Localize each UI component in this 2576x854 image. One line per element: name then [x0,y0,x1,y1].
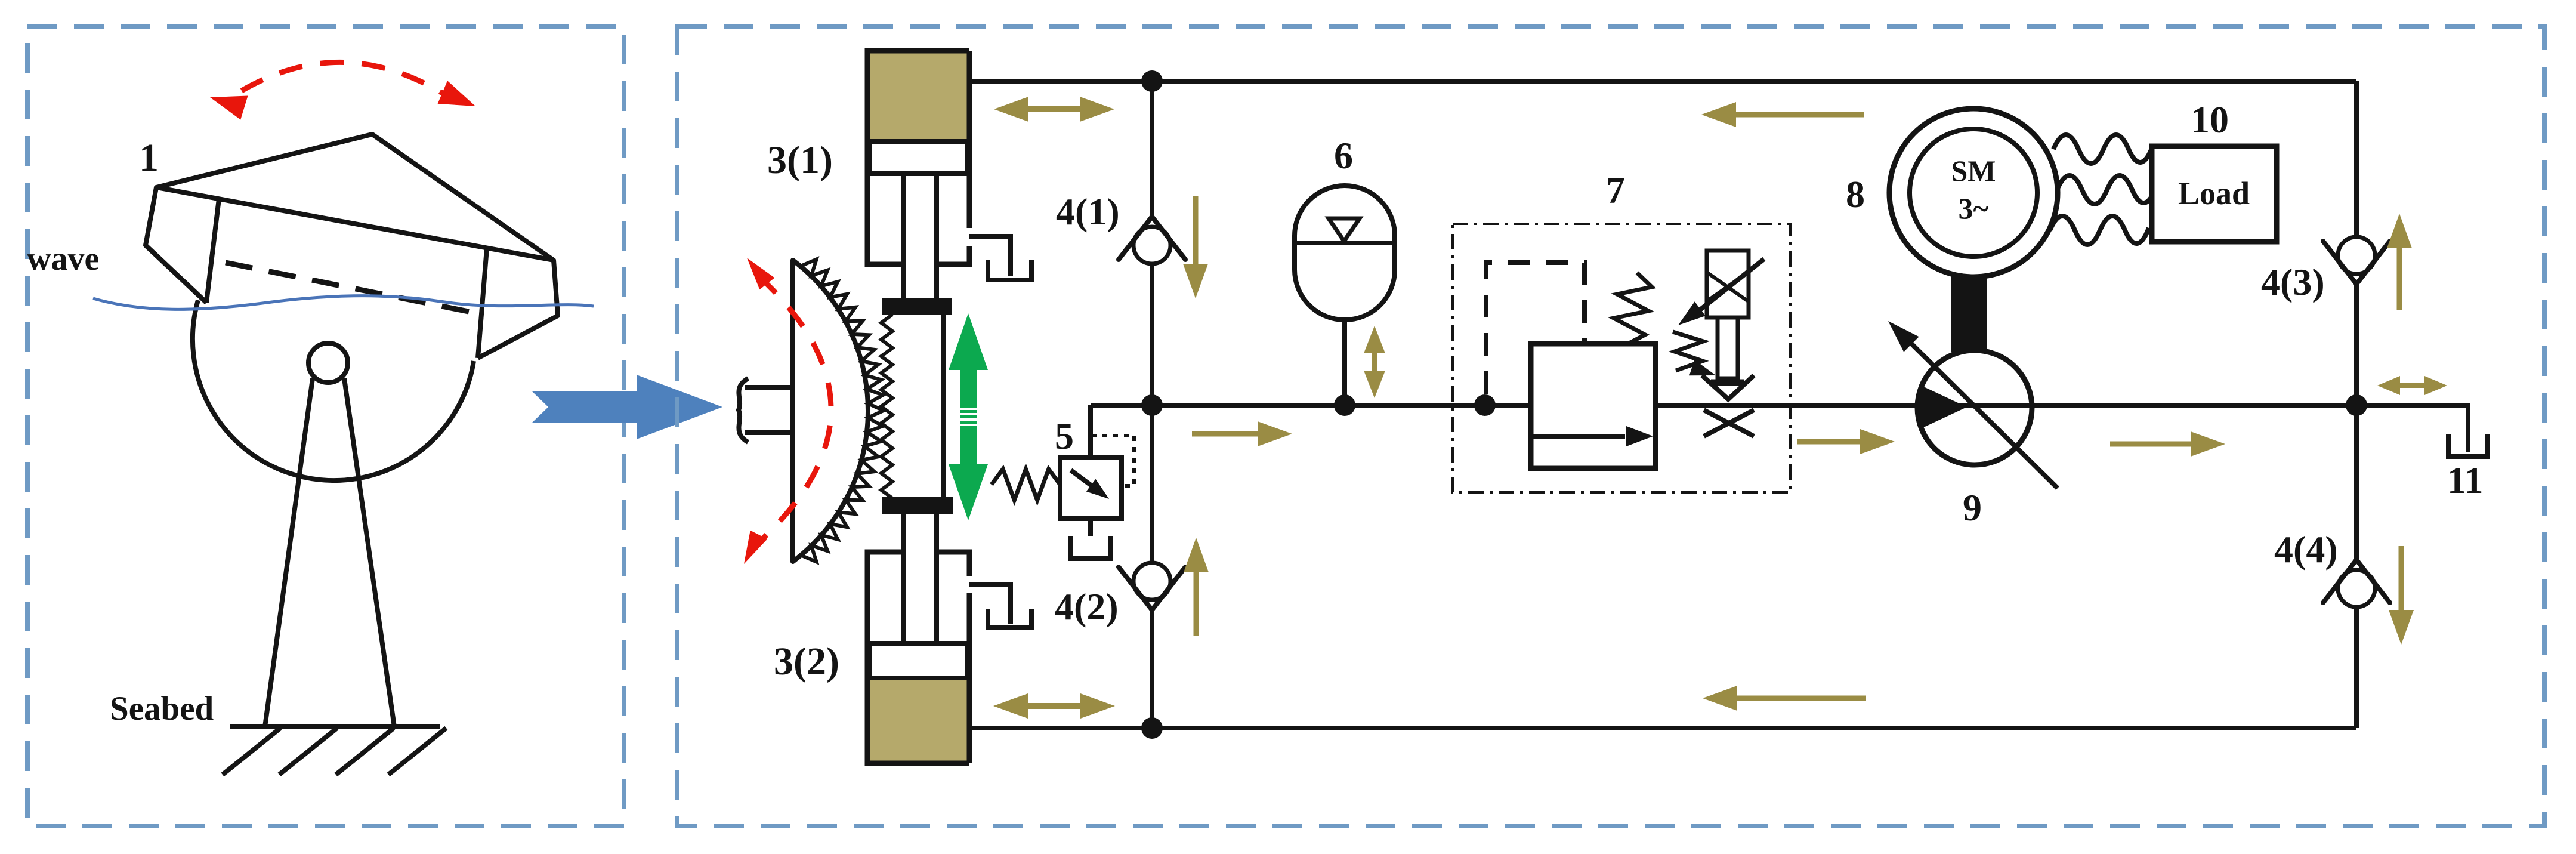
tank 11 [2448,434,2488,457]
svg-text:SM: SM [1951,154,1996,187]
svg-text:10: 10 [2191,98,2229,141]
buoy hull circle arc [193,300,474,480]
flow control valve body (box 7) [1531,273,1655,468]
pilot dashed line (box 7) [1486,263,1584,394]
svg-text:3(1): 3(1) [767,138,833,182]
flow arrow left (top line) [1701,102,1864,127]
svg-text:4(2): 4(2) [1055,585,1119,628]
floater buoy 1 (outline) [146,134,558,358]
green rack-motion double arrow [949,313,988,520]
node junction (1931,679) [1141,394,1163,416]
wire: top line from cylinder 3(1) to right corner [969,79,2356,84]
flow arrow right (after valve block) [1797,429,1895,454]
label 7 [1606,169,1625,211]
label wave [27,241,99,278]
svg-text:5: 5 [1055,415,1074,457]
dash-dot enclosure of valve block 7 [1453,224,1790,492]
seabed ground with hatching [223,727,446,775]
proportional throttle (box 7) [1673,251,1764,436]
svg-text:11: 11 [2447,459,2483,501]
input shaft fork [739,378,793,442]
svg-text:3~: 3~ [1958,192,1988,225]
wave water line [93,296,594,310]
cylinder 3(1) drain port with tank [969,236,1031,280]
node junction (3950,679) [2346,394,2367,416]
flow arrow right (after motor) [2110,431,2225,457]
svg-text:9: 9 [1963,486,1982,529]
flow arrow up (at 4(2)) [1184,538,1209,636]
label 6 [1334,134,1353,177]
svg-text:6: 6 [1334,134,1353,177]
node junction (1931,136) [1141,70,1163,92]
cylinder 3(1) [867,51,969,300]
label 3(1) [767,138,833,182]
flow arrow (cyl 3(2) port, double) [993,693,1115,719]
svg-text:4(4): 4(4) [2274,528,2338,571]
flow arrow down (at 4(4)) [2389,546,2414,645]
wire: middle main line [1091,403,2356,408]
red oscillation arc (sector) [744,258,831,564]
svg-text:Seabed: Seabed [110,690,214,727]
relief valve 5 [992,405,1134,559]
right dashed panel border [677,26,2544,826]
label 5 [1055,415,1074,457]
label 4(1) [1056,190,1120,233]
floater hidden waterline edge (dashed) [226,263,483,315]
check valve 4(3) [2323,237,2390,284]
sector gear (pinion segment) [793,260,884,562]
svg-text:1: 1 [139,136,159,180]
label 3(2) [774,640,839,683]
flow arrow up (at 4(3)) [2387,214,2412,310]
three-phase squiggle wires [2050,135,2156,245]
load box 10 [2152,146,2277,242]
flow arrow down (at 4(1)) [1183,196,1208,298]
blue transfer arrow [532,375,722,439]
label 4(2) [1055,585,1119,628]
flow arrow (cyl 3(1) port, double) [994,97,1114,122]
cylinder 3(2) [867,513,969,763]
check valve 4(2) [1119,563,1185,610]
label Seabed [110,690,214,727]
svg-text:8: 8 [1846,173,1865,215]
svg-text:7: 7 [1606,169,1625,211]
label 4(4) [2274,528,2338,571]
pivot circle [308,343,348,383]
rack with crossheads [879,298,953,514]
motor-generator shaft [1951,275,1987,352]
label 8 [1846,173,1865,215]
svg-text:Load: Load [2178,175,2250,211]
wire: right vertical line through 4(3) and 4(4) [2354,81,2359,728]
wire: branch to tank 11 [2356,405,2468,452]
node junction (2489,679) [1474,394,1496,416]
svg-text:wave: wave [27,241,99,278]
label 4(3) [2261,261,2325,303]
node junction (1931,1220) [1141,717,1163,739]
check valve 4(1) [1119,217,1185,264]
synchronous generator 8 [1889,109,2058,277]
flow arrow (tank branch, double) [2377,376,2447,395]
variable hydraulic motor 9 [1888,321,2058,488]
flow arrow left (bottom line) [1703,686,1866,711]
wire: bottom line from cylinder 3(2) to right [971,726,2356,730]
left dashed panel border [27,26,624,826]
flow arrow right (middle line) [1192,421,1292,446]
svg-text:3(2): 3(2) [774,640,839,683]
red oscillation arc (left panel) [210,62,475,119]
support A-frame legs [265,378,394,727]
label 11 [2447,459,2483,501]
flow arrow (accumulator, double) [1364,326,1385,398]
wire: left vertical line through 4(1) and 4(2) [1150,81,1154,728]
label 1 [139,136,159,180]
cylinder 3(2) drain port with tank [969,585,1031,628]
label 9 [1963,486,1982,529]
accumulator 6 [1295,186,1395,405]
label 10 [2191,98,2229,141]
svg-text:4(3): 4(3) [2261,261,2325,303]
check valve 4(4) [2323,560,2390,607]
node junction (2254,679) [1334,394,1355,416]
svg-text:4(1): 4(1) [1056,190,1120,233]
